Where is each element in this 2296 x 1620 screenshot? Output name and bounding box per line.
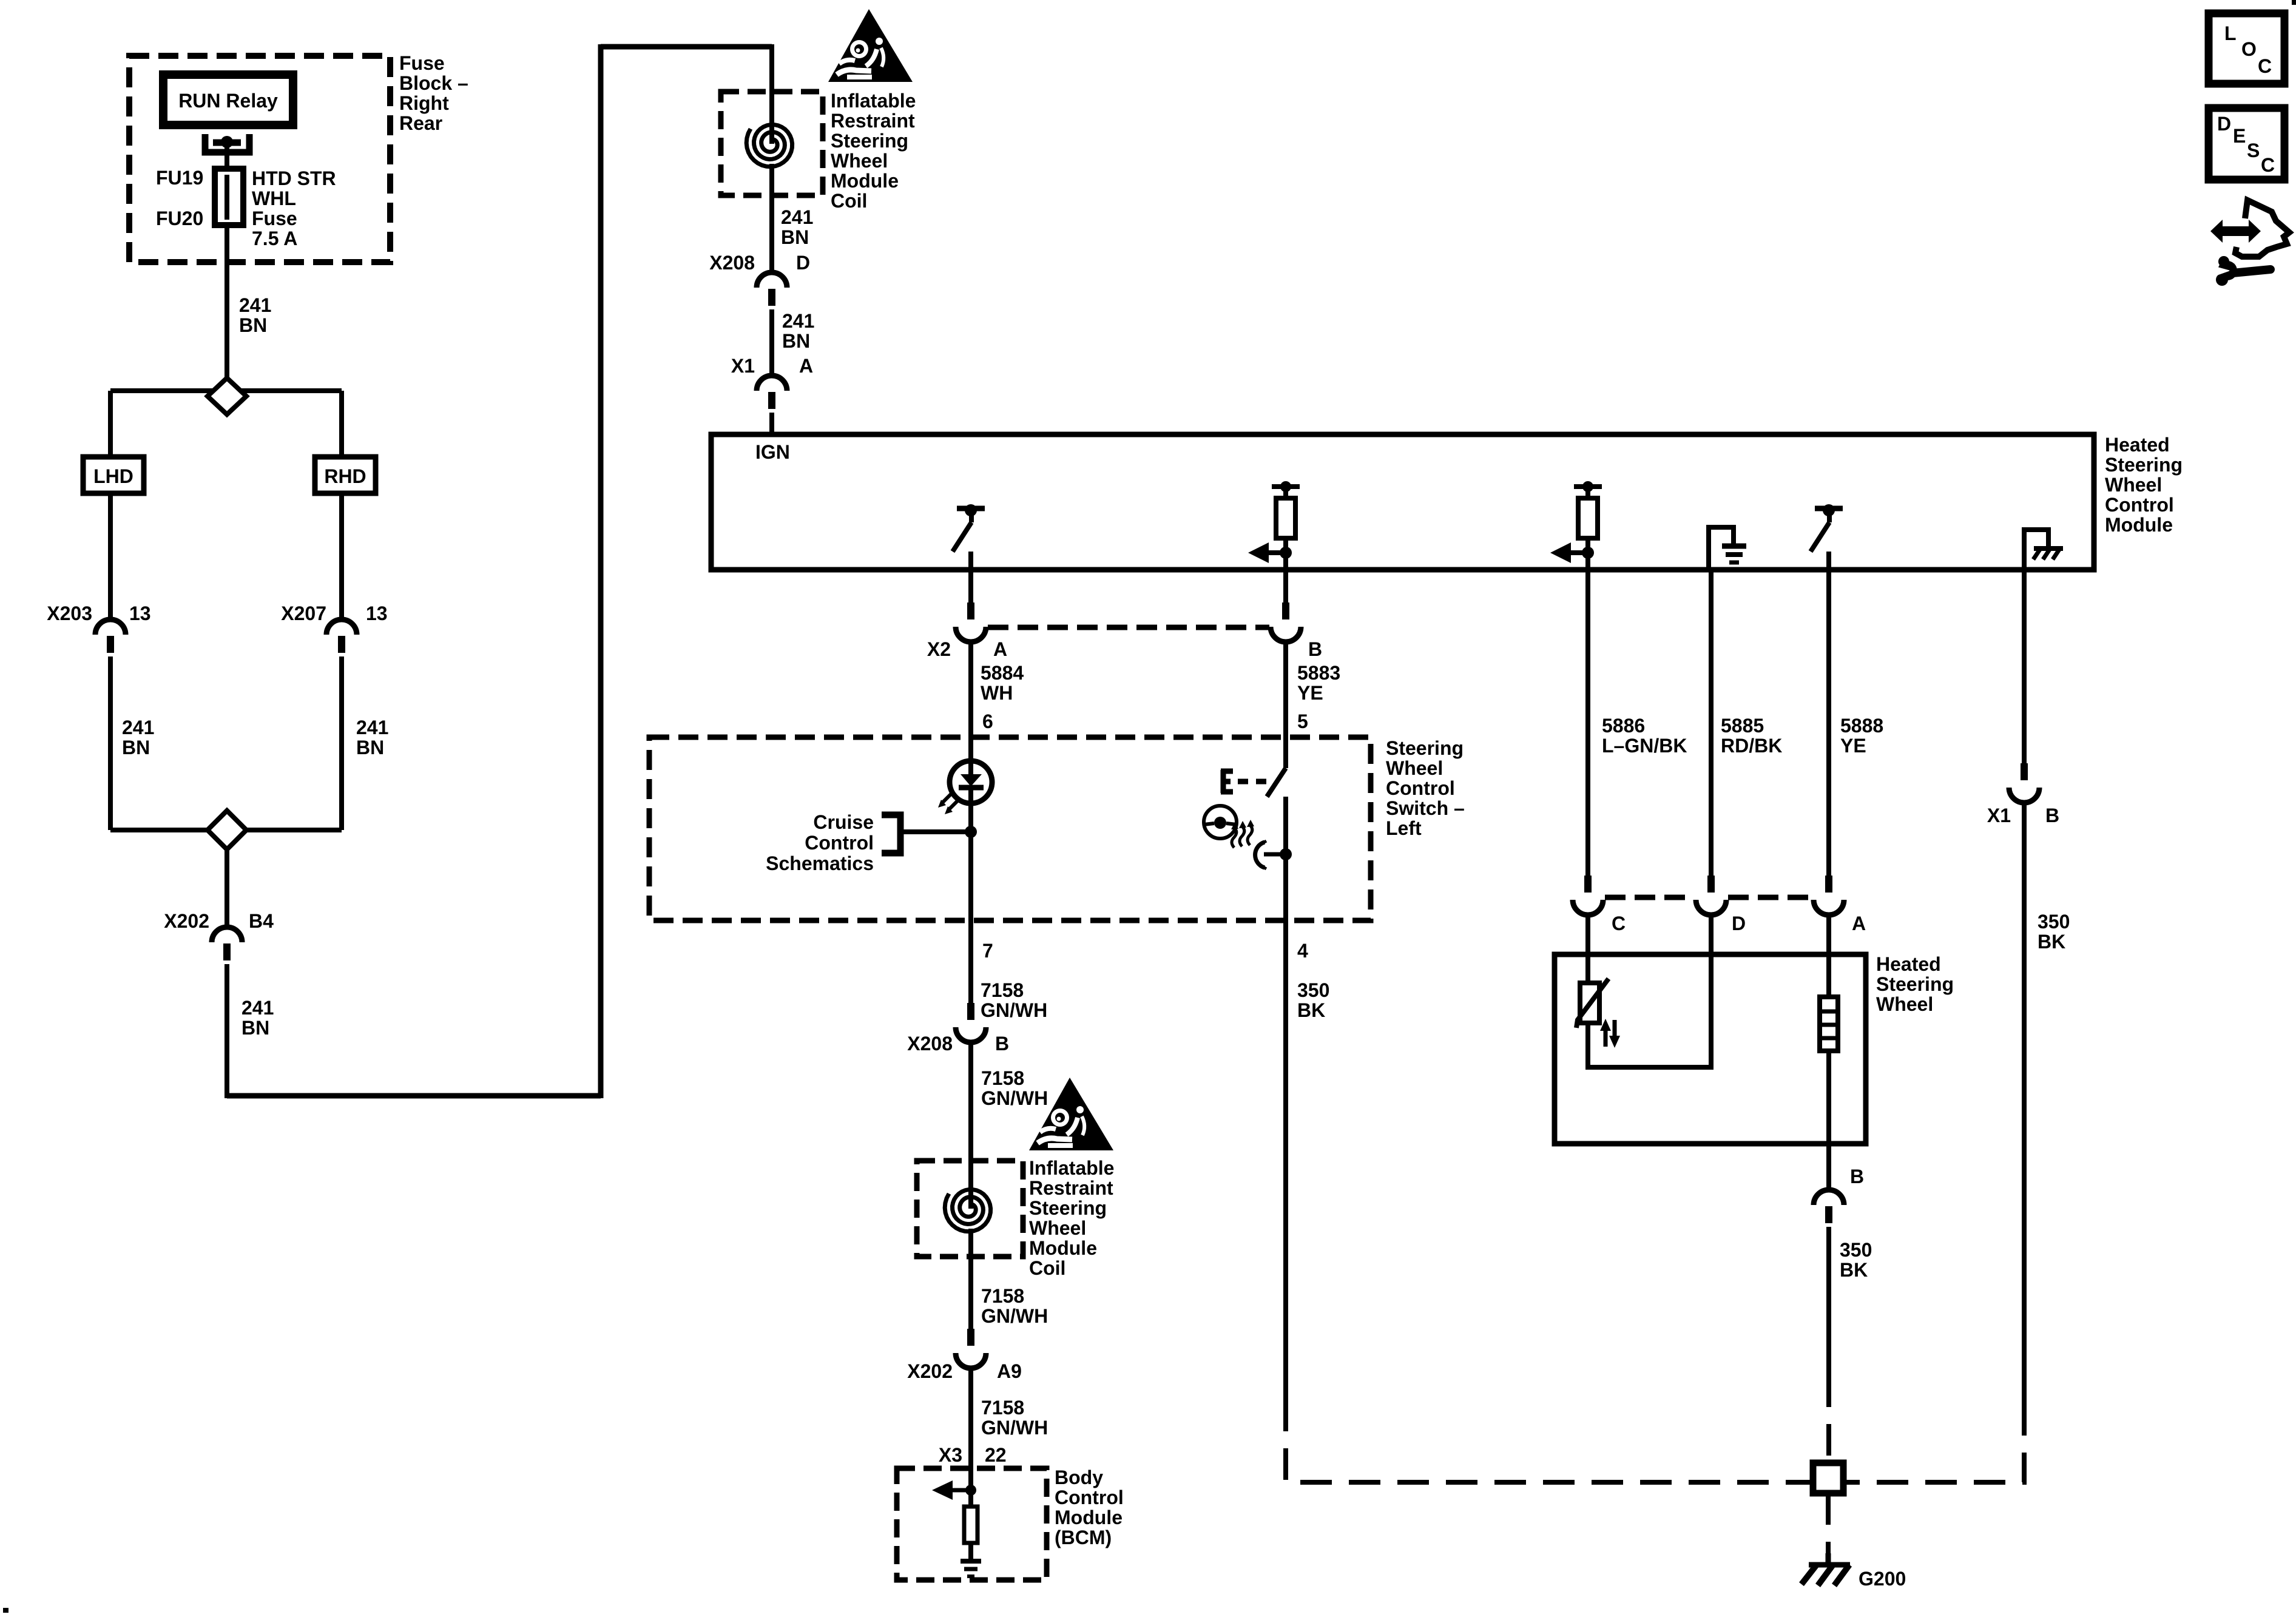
resistor sense (pin C) inside module: [1574, 484, 1602, 489]
BCM dashed box: [897, 1468, 1047, 1580]
cruise control off-page bracket: [882, 815, 900, 853]
svg-text:X202: X202: [164, 910, 209, 932]
wire pin C down: [1585, 570, 1590, 877]
dashed wire X1 B to corner: [1846, 1404, 2024, 1482]
svg-text:6: 6: [982, 710, 993, 732]
heated steering wheel box: [1555, 954, 1866, 1144]
module U1 Heated Steering Wheel Control Module box: [711, 434, 2094, 570]
svg-text:241BN: 241BN: [122, 717, 154, 758]
svg-text:C: C: [2258, 55, 2272, 77]
wire X2 B down to switch: [1283, 641, 1288, 768]
svg-text:A: A: [1852, 913, 1866, 934]
svg-text:L: L: [2224, 22, 2237, 44]
svg-text:X208: X208: [709, 252, 755, 274]
svg-text:X207: X207: [281, 602, 326, 624]
SRS coil dashed box (top): [721, 92, 823, 195]
wire B down: [1826, 1227, 1831, 1375]
svg-text:E: E: [2233, 125, 2246, 147]
svg-text:D: D: [2217, 113, 2231, 135]
legend double-arrow + panel + wrench icon: [2210, 220, 2261, 243]
DESC legend box: [2209, 108, 2284, 180]
wire X2 A down to LED: [968, 641, 973, 782]
fuse block dashed box (Fuse Block - Right Rear): [129, 56, 390, 262]
connector A (heated wheel): [1825, 876, 1832, 893]
wire coil down to X208 D: [769, 164, 774, 273]
connector X203 pin 13: [95, 619, 126, 635]
svg-text:4: 4: [1297, 940, 1308, 962]
RHD option box: [315, 457, 376, 493]
svg-text:C: C: [1612, 913, 1626, 934]
switch (pin A driver) inside module: [1815, 506, 1843, 511]
wire LHD down to X203: [108, 493, 113, 619]
dashes from E to blade: [1238, 779, 1267, 785]
svg-text:X203: X203: [47, 602, 92, 624]
svg-text:FU19: FU19: [156, 167, 203, 189]
connector X2 pin A: [967, 602, 974, 619]
svg-text:X3: X3: [939, 1444, 962, 1466]
splice S (ground junction) square: [1813, 1463, 1843, 1493]
connector X1 pin A: [757, 376, 787, 391]
wire X203 down: [108, 656, 113, 830]
wire X1 A down to module: [769, 413, 774, 434]
svg-text:13: 13: [366, 602, 388, 624]
wire into SRS coil: [769, 44, 774, 144]
wire pin A down: [1826, 570, 1831, 877]
BCM pulldown resistor: [968, 1490, 973, 1507]
svg-text:A: A: [993, 638, 1007, 660]
wire X208 D down to X1 A: [769, 309, 774, 375]
wire top run to coil: [601, 44, 772, 50]
wire horizontal join below LHD/RHD: [110, 828, 342, 832]
svg-text:5: 5: [1297, 710, 1308, 732]
svg-text:IGN: IGN: [755, 441, 790, 463]
connector X2 pin B: [1282, 602, 1289, 619]
chassis ground inside module: [2024, 530, 2048, 570]
LOC legend box: [2209, 13, 2284, 84]
steering wheel control switch dashed box: [649, 737, 1371, 920]
wire fuse down to splice diamond: [225, 225, 229, 380]
svg-text:RHD: RHD: [324, 465, 366, 487]
connector X1 pin B (right): [2021, 763, 2028, 780]
SRS coil dashed box (bottom): [917, 1161, 1023, 1257]
connector X207 pin 13: [326, 619, 357, 635]
svg-text:350BK: 350BK: [1297, 979, 1329, 1021]
fuse FU19/FU20 HTD STR WHL 7.5A: [225, 171, 229, 225]
label E (engage): [1221, 770, 1233, 793]
switch blade (heated wheel switch): [1267, 768, 1286, 797]
dashed connector link X2 A-B: [988, 625, 1269, 630]
wire horizontal branch to LHD and RHD: [110, 388, 342, 393]
momentary contact hook: [1255, 842, 1264, 868]
heater element: [1820, 997, 1838, 1051]
svg-text:D: D: [796, 252, 810, 274]
svg-text:X2: X2: [927, 638, 951, 660]
svg-text:LHD: LHD: [93, 465, 133, 487]
connector D (heated wheel): [1707, 876, 1715, 893]
junction node (hook): [1280, 848, 1292, 860]
svg-text:241BN: 241BN: [356, 717, 388, 758]
wire D into box: [1709, 914, 1714, 1070]
svg-text:7: 7: [982, 940, 993, 962]
wire bottom run to the right: [227, 1093, 601, 1099]
wire X208 B down: [968, 1041, 973, 1209]
signal ground inside module: [1709, 527, 1734, 570]
connector X208 pin D: [757, 272, 787, 288]
connector X202 pin B4: [212, 927, 242, 942]
svg-text:X208: X208: [907, 1033, 953, 1055]
wire diamond down to X202: [225, 849, 229, 926]
svg-text:350BK: 350BK: [2038, 911, 2070, 953]
svg-text:X1: X1: [1987, 805, 2011, 826]
wire thermistor to D: [1588, 1023, 1711, 1067]
thermistor up/down arrows: [1604, 1030, 1608, 1047]
wire coil2 down: [968, 1229, 973, 1330]
svg-text:O: O: [2241, 38, 2257, 60]
BCM signal ground: [961, 1559, 981, 1564]
wire LED down through box: [968, 786, 973, 1004]
svg-text:C: C: [2261, 154, 2275, 176]
resistor sense (pin B) inside module: [1272, 484, 1300, 489]
BCM input arrow: [965, 1485, 976, 1496]
wire relay to fuse: [225, 144, 229, 171]
svg-text:X202: X202: [907, 1360, 953, 1382]
wire C into box: [1585, 914, 1590, 983]
dashed link D-A: [1728, 895, 1812, 900]
svg-text:350BK: 350BK: [1840, 1239, 1872, 1281]
wire module pin 6 down: [968, 570, 973, 604]
page dot bottom-left: [3, 1608, 8, 1613]
svg-text:D: D: [1732, 913, 1746, 934]
wire module to X1 B (right): [2022, 570, 2027, 764]
wire to RHD box: [339, 391, 344, 457]
svg-text:241BN: 241BN: [781, 206, 813, 248]
dashed wire B to splice: [1826, 1375, 1831, 1463]
wire module pin 5 down: [1283, 570, 1288, 604]
clockspring coil symbol (top): [746, 125, 792, 167]
wire pin D down: [1709, 570, 1714, 877]
wire heater down out of box: [1826, 1051, 1831, 1190]
svg-text:G200: G200: [1859, 1568, 1906, 1590]
wire X202 down: [225, 964, 229, 1098]
connector X202 pin A9: [967, 1329, 974, 1346]
svg-text:RUN Relay: RUN Relay: [178, 90, 278, 112]
svg-text:241BN: 241BN: [782, 310, 814, 352]
dashed link C-D: [1605, 895, 1694, 900]
clockspring coil symbol (bottom): [945, 1190, 990, 1232]
svg-text:B4: B4: [249, 910, 274, 932]
wire long vertical up: [598, 44, 604, 1098]
connector B (heated wheel): [1814, 1190, 1844, 1205]
wire RHD down to X207: [339, 493, 344, 619]
relay K RUN Relay box: [163, 75, 293, 125]
switch (output A driver) inside module: [957, 506, 985, 511]
junction node to cruise control: [965, 826, 977, 838]
corner mark: [2292, 0, 2296, 5]
svg-text:22: 22: [985, 1444, 1007, 1466]
svg-text:B: B: [1308, 638, 1322, 660]
svg-text:FU20: FU20: [156, 208, 203, 229]
heated steering wheel icon: [1204, 806, 1237, 839]
wire X202 A9 down to BCM: [968, 1367, 973, 1490]
svg-text:A: A: [799, 355, 813, 377]
LHD option box: [83, 457, 144, 493]
svg-text:A9: A9: [997, 1360, 1022, 1382]
dashed wire splice to G200: [1826, 1493, 1831, 1553]
splice diamond (bottom): [208, 811, 246, 849]
svg-text:241BN: 241BN: [239, 294, 271, 336]
svg-text:241BN: 241BN: [241, 997, 274, 1039]
wire to LHD box: [108, 391, 113, 457]
connector X208 pin B: [967, 1003, 974, 1020]
wire to cruise bracket: [900, 829, 971, 834]
wire switch lower to pin 4 run: [1283, 797, 1288, 1400]
svg-text:S: S: [2247, 140, 2260, 161]
svg-text:B: B: [995, 1033, 1009, 1055]
thermistor RT (temperature sensor): [1580, 983, 1599, 1023]
warning triangle (SRS) bottom: [1029, 1078, 1113, 1150]
wire X207 down: [339, 656, 344, 830]
connector C (heated wheel): [1584, 876, 1592, 893]
LED indicator (cruise) D1: [950, 761, 992, 803]
relay contact terminal under RUN Relay: [205, 134, 249, 152]
svg-text:X1: X1: [731, 355, 755, 377]
ground G200 symbol: [1826, 1553, 1831, 1564]
wire X1 B down: [2022, 802, 2027, 1404]
svg-text:13: 13: [129, 602, 151, 624]
wire A into box: [1826, 914, 1831, 997]
dashed wire switch leg to splice: [1286, 1400, 1811, 1482]
splice diamond (top): [208, 378, 246, 414]
svg-text:B: B: [2045, 805, 2059, 826]
svg-text:B: B: [1850, 1166, 1864, 1187]
